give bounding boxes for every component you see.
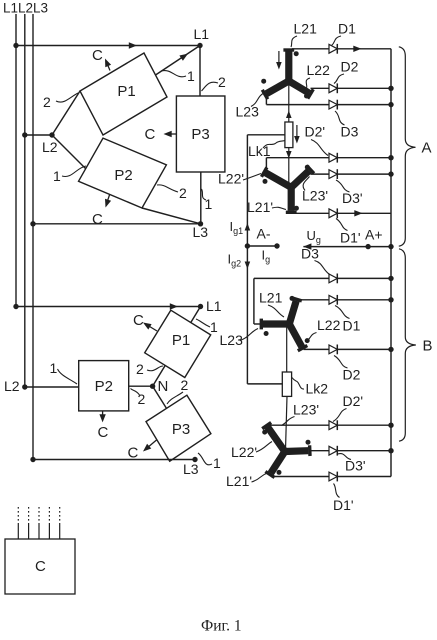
junction D3prime-rail (388, 171, 393, 176)
diode D2 (group B) (329, 345, 337, 355)
label A- (257, 226, 271, 242)
wire D1prime to rail (337, 210, 391, 216)
terminal dot L22 (B) (305, 338, 310, 343)
svg-text:L1L2L3: L1L2L3 (3, 1, 48, 16)
end junction bus L2 (4, 378, 27, 394)
svg-text:C: C (92, 211, 103, 228)
wire Y1 L22 to D2 (311, 87, 330, 89)
svg-text:P1: P1 (117, 83, 135, 100)
label Lk1 (248, 141, 285, 160)
wire Y1 center to choke Lk1 (286, 81, 292, 122)
label Ig (262, 248, 271, 265)
svg-text:A: A (422, 140, 432, 157)
wire bus L1 (vertical) (15, 14, 17, 307)
wire L1 to lower P1 winding 1 (191, 307, 201, 323)
svg-text:L23': L23' (293, 402, 319, 418)
junction D3-rail (388, 102, 393, 107)
junction A+ terminal (365, 244, 370, 249)
wire center-tap Lk1 to measurement rail (247, 134, 285, 136)
label D2 (334, 59, 359, 84)
wire D1 to rail (group B) (337, 299, 391, 301)
svg-text:L3: L3 (183, 461, 199, 477)
svg-text:2: 2 (181, 377, 189, 393)
current arrow at L21 (276, 51, 282, 70)
label Lk2 (292, 378, 328, 397)
label L22prime (218, 171, 261, 187)
label D1 (group B) (335, 306, 361, 334)
label A (rectifier group A) (422, 140, 432, 157)
wire D1prime to rail (group B) (337, 476, 391, 478)
node L1 (lower group) (198, 298, 222, 314)
wire Y1 L23 down (265, 94, 267, 105)
svg-text:N: N (158, 378, 169, 395)
wire lower L3 feed (33, 459, 195, 461)
label 1 (P1 winding 1) (161, 68, 195, 84)
label L21 (group B) (259, 290, 284, 318)
label D1prime (group A) (336, 219, 361, 246)
winding L22 (star Y1 right arm) (289, 81, 314, 99)
wire lower L1 feed (16, 303, 201, 309)
label L23prime (group B) (282, 402, 320, 426)
junction D2-rail (388, 86, 393, 91)
wire Y3 L21 to D1 (group B) (299, 299, 329, 301)
wire upper L1 feed (16, 42, 200, 48)
label D2prime (group A) (305, 124, 329, 156)
wire L1 to P1 winding 1 (156, 46, 201, 76)
label 1 (P2 winding 1) (53, 166, 86, 184)
current arrow Ig2 (245, 262, 251, 270)
wire D3prime to rail (337, 173, 391, 175)
arrow C output of P2 (92, 194, 111, 228)
current arrow Ig1 (245, 223, 251, 231)
arrow C output of lower P1 (133, 312, 157, 331)
winding L21prime (star Y2 lower arm) (286, 187, 297, 212)
svg-text:D1': D1' (333, 497, 354, 513)
wire L2 to P2 winding 1 (52, 135, 86, 169)
node labels L1 L2 L3 (three-phase buses) (3, 1, 48, 16)
label L21prime (group B) (226, 473, 268, 489)
svg-text:1: 1 (187, 68, 195, 84)
winding L23 (star Y3 left arm) (261, 319, 289, 330)
svg-text:A+: A+ (365, 227, 383, 243)
svg-text:1: 1 (53, 168, 61, 184)
wire L3 to P2 winding 2 (142, 208, 201, 224)
svg-text:L23: L23 (236, 104, 260, 120)
wire choke Lk1 to star Y2 (286, 148, 292, 188)
label 1 (lower P2 winding 1) (50, 360, 78, 384)
control unit C connections (dashed) (18, 507, 59, 539)
svg-text:L22': L22' (218, 171, 244, 187)
label Ug (307, 228, 321, 245)
wire choke Lk2 to star Y4 (286, 396, 288, 450)
junction D2-rail (group B) (388, 347, 393, 352)
svg-text:D1': D1' (340, 230, 361, 246)
diode D1 (329, 44, 337, 54)
transformer P1 (upper, rotated) (80, 53, 167, 135)
wire Y1 to D1 (292, 48, 329, 50)
label D3prime (group A) (336, 180, 363, 206)
label D1 (332, 21, 357, 46)
svg-text:D3': D3' (345, 458, 366, 474)
wire D2prime to rail (337, 157, 391, 159)
control unit C box (5, 539, 75, 594)
wire D2prime to rail (group B) (337, 424, 391, 426)
terminal dot L23 (B) (264, 331, 269, 336)
svg-text:P3: P3 (191, 126, 209, 143)
transformer P2 (lower) (79, 361, 129, 411)
terminal dot L22 (304, 94, 309, 99)
svg-text:L23: L23 (220, 332, 244, 348)
arrow C output of P3 (145, 126, 177, 143)
terminal dot L21 (B) (290, 296, 295, 301)
svg-text:D3: D3 (341, 124, 359, 140)
label 1 (P3 winding 1) (202, 189, 213, 212)
svg-text:D2': D2' (305, 124, 326, 140)
svg-text:L2: L2 (4, 378, 20, 394)
wire N to lower P1 (153, 365, 166, 386)
node L2 (upper group) (42, 132, 58, 155)
wire Y3 L22 to D2 (group B) (304, 348, 330, 350)
wire to Y3 left arm (254, 323, 261, 325)
label L22 (group B) (306, 317, 341, 342)
diode D1prime (group B) (329, 472, 337, 482)
label D1prime (group B) (333, 484, 354, 514)
svg-text:P2: P2 (95, 378, 113, 395)
label L21prime (247, 199, 286, 215)
terminal A- stub (245, 243, 280, 248)
wire D3 row (group B) (254, 277, 329, 279)
svg-text:L22': L22' (231, 444, 257, 460)
wire D3 to positive rail (337, 104, 391, 106)
node N (neutral) (150, 378, 168, 395)
svg-text:D2: D2 (343, 367, 361, 383)
terminal dot L23 (261, 79, 266, 84)
node L1 (upper group) (194, 26, 210, 48)
junction on bus L1 (13, 43, 18, 48)
diode D2prime (329, 153, 337, 163)
label 1 (lower P1 winding 1) (196, 319, 218, 335)
wire L23prime to D3prime (311, 173, 330, 175)
arrow C output of lower P2 (98, 411, 109, 441)
svg-text:L1: L1 (194, 26, 210, 42)
svg-text:D2': D2' (343, 393, 364, 409)
wire D2 to positive rail (337, 87, 391, 89)
node L3 (lower group) (183, 457, 199, 477)
transformer P3 (upper) (176, 96, 225, 172)
svg-text:L23': L23' (302, 188, 328, 204)
label Ig2 (228, 252, 242, 269)
label D2prime (group B) (333, 393, 363, 422)
junction on bus L2 (22, 132, 27, 137)
label 2 (P2 winding 2) (157, 185, 187, 201)
svg-text:D3': D3' (342, 190, 363, 206)
wire L1 to P3 winding 2 (199, 46, 201, 97)
label D3prime (group B) (338, 454, 366, 474)
positive rail (right vertical) (390, 49, 392, 477)
svg-text:2: 2 (136, 361, 144, 377)
wire L22prime to D3prime (group B) (311, 450, 330, 452)
wire center-tap Lk2 to measurement rail (247, 383, 282, 385)
wire upper L2 feed (25, 134, 52, 136)
label D3 (group A) (335, 111, 359, 140)
svg-text:C: C (145, 126, 156, 143)
svg-text:P3: P3 (172, 421, 190, 438)
junction A+ rail (388, 244, 393, 249)
winding L21 (star Y1 upper arm) (283, 50, 294, 81)
svg-text:L22: L22 (307, 62, 331, 78)
winding L22 (star Y3 lower-right arm) (289, 324, 307, 351)
label D2 (group B) (334, 356, 361, 383)
diode D2 (329, 83, 337, 93)
label L21 (291, 21, 317, 48)
transformer P2 (upper, rotated) (79, 138, 167, 208)
svg-text:D3: D3 (301, 246, 319, 262)
svg-text:L1: L1 (206, 298, 222, 314)
transformer P3 (lower, rotated) (146, 395, 211, 461)
svg-text:P2: P2 (114, 167, 132, 184)
wire L23 branch down (group B) (253, 278, 255, 324)
inductor Lk1 (285, 122, 293, 148)
wire Y3 center to choke Lk2 (286, 324, 288, 372)
brace group A (399, 47, 416, 246)
diode D3 (group B) (329, 274, 337, 284)
wire lower L2 feed (25, 386, 79, 388)
label A+ (365, 227, 383, 243)
svg-text:L21': L21' (247, 199, 273, 215)
winding L21 (star Y3 up arm) (289, 298, 302, 324)
label 2 (lower P2 winding 2) (131, 389, 146, 408)
label L23 (group B) (220, 329, 259, 349)
junction D1-rail (group B) (388, 297, 393, 302)
terminal dot L21 (294, 51, 299, 56)
wire L3 to P3 winding 1 (200, 172, 202, 224)
winding L21prime (star Y4 lower-left arm) (265, 452, 284, 478)
wire D2 to rail (group B) (337, 348, 391, 350)
label B (rectifier group B) (423, 338, 433, 355)
junction D2prime-rail (group B) (388, 423, 393, 428)
terminal dot L21prime (294, 206, 299, 211)
terminal dot L21prime (B) (277, 470, 282, 475)
junction D3-rail (group B) (388, 276, 393, 281)
svg-text:L21: L21 (259, 290, 283, 306)
diode D1prime (329, 208, 337, 218)
winding L22prime (star Y4 right arm) (285, 445, 310, 456)
label L22 (306, 62, 330, 88)
label 2 (lower P1 winding 2) (136, 361, 163, 377)
diode D2prime (group B) (329, 420, 337, 430)
svg-text:L21': L21' (226, 473, 252, 489)
svg-text:1: 1 (213, 455, 221, 471)
svg-text:L2: L2 (42, 139, 58, 155)
svg-text:Фиг. 1: Фиг. 1 (201, 618, 242, 635)
wire D3prime to rail (group B) (337, 450, 391, 452)
svg-text:B: B (423, 338, 433, 355)
measurement rail (left vertical) (246, 135, 248, 384)
wire L21prime to D1prime (group B) (271, 476, 329, 478)
winding L23 (star Y1 left arm) (262, 81, 289, 99)
wire N to lower P3 (153, 386, 167, 408)
label 2 (P3 winding 2) (202, 74, 227, 91)
node L3 (upper group) (193, 221, 209, 240)
wire L22prime to D2prime (266, 157, 329, 159)
svg-text:D2: D2 (341, 59, 359, 75)
diode D3prime (group B) (329, 446, 337, 456)
svg-text:C: C (133, 312, 144, 329)
svg-text:D1: D1 (338, 21, 356, 37)
terminal dot L23prime (B) (262, 430, 267, 435)
diode D3prime (329, 169, 337, 179)
svg-text:C: C (35, 558, 46, 575)
junction on bus L3 (30, 221, 35, 226)
terminal dot L22prime (263, 179, 268, 184)
svg-text:L22: L22 (317, 317, 341, 333)
svg-text:1: 1 (205, 196, 213, 212)
end junction bus L3 (30, 457, 35, 462)
label L23 (236, 94, 264, 120)
svg-text:L21: L21 (294, 21, 318, 37)
svg-text:D1: D1 (343, 318, 361, 334)
wire L2 to P1 winding 2 (52, 91, 80, 135)
svg-text:2: 2 (179, 185, 187, 201)
diode D3 (329, 100, 337, 110)
wire upper L3 feed (33, 223, 201, 225)
svg-text:L3: L3 (193, 224, 209, 240)
label 1 (lower P3 winding 1) (198, 453, 221, 471)
wire D3 to rail (group B) (337, 277, 391, 279)
svg-text:1: 1 (50, 360, 58, 376)
label L23prime (302, 177, 328, 204)
wire bus L2 (vertical) (24, 14, 26, 387)
svg-text:2: 2 (218, 74, 226, 90)
terminal dot L23prime (305, 165, 310, 170)
svg-text:C: C (98, 424, 109, 441)
junction D2prime-rail (388, 155, 393, 160)
brace group B (399, 249, 416, 441)
caption Fig.1 (201, 618, 242, 635)
label 2 (P1 winding 2) (43, 93, 78, 110)
terminal dot L22prime (B) (306, 440, 311, 445)
svg-text:C: C (92, 47, 103, 64)
wire D1 to positive rail (337, 46, 391, 52)
end junction bus L1 (13, 304, 18, 309)
wire L23 to D3 (266, 104, 329, 106)
label Ig1 (230, 219, 244, 236)
arrow C output of P1 (92, 47, 111, 71)
wire L23prime to D2prime (group B) (266, 424, 329, 426)
svg-text:A-: A- (257, 226, 271, 242)
junction D3prime-rail (group B) (388, 448, 393, 453)
wire bus L3 (vertical) (32, 14, 34, 460)
current arrow at Lk1 (294, 125, 300, 144)
label L22prime (group B) (231, 442, 272, 461)
svg-text:Lk2: Lk2 (306, 381, 329, 397)
wire L21prime to D1prime (291, 212, 329, 214)
arrow C output of lower P3 (128, 440, 157, 462)
label 2 (lower P3 winding 2) (167, 377, 189, 404)
transformer P1 (lower, rotated) (145, 310, 211, 377)
winding L23prime (star Y2 upper-right arm) (291, 166, 314, 188)
label D3 (group B) (301, 246, 330, 275)
winding L23prime (star Y4 upper-left arm) (262, 423, 285, 452)
inductor Lk2 (282, 372, 291, 396)
svg-text:P1: P1 (172, 332, 190, 349)
svg-text:1: 1 (210, 319, 218, 335)
wire P2 to N (129, 385, 153, 387)
diode D1 (group B) (329, 295, 337, 305)
winding L22prime (star Y2 upper-left arm) (262, 167, 292, 187)
wire L22prime arm up (265, 158, 267, 172)
wire Ug / A+ link (303, 243, 391, 249)
svg-text:2: 2 (43, 94, 51, 110)
